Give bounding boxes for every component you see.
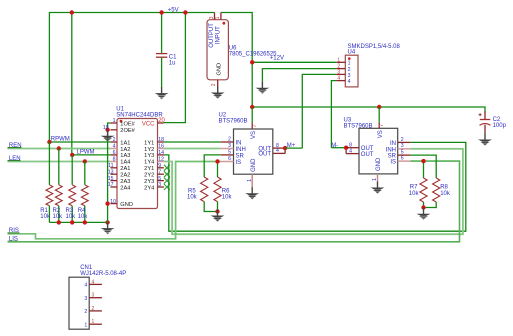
svg-text:1: 1 bbox=[247, 179, 253, 182]
wire VCC pin20 to +5V rail bbox=[164, 13, 186, 123]
ground for U3 bbox=[371, 182, 385, 194]
resistor R3 bbox=[69, 155, 76, 223]
svg-text:7: 7 bbox=[252, 124, 258, 127]
svg-text:20: 20 bbox=[158, 118, 165, 124]
svg-text:7: 7 bbox=[158, 169, 161, 175]
wire M- from U4 pin4 drop to U3 OUT bbox=[331, 147, 346, 149]
svg-text:INH: INH bbox=[236, 147, 246, 153]
resistor R7 bbox=[420, 161, 427, 207]
junction R6 top on IS net bbox=[215, 159, 219, 163]
svg-text:SMKDSP1,5/4-5.08: SMKDSP1,5/4-5.08 bbox=[348, 44, 401, 50]
svg-text:2Y2: 2Y2 bbox=[144, 173, 154, 179]
svg-text:3: 3 bbox=[348, 73, 351, 79]
svg-text:1: 1 bbox=[113, 118, 116, 124]
driver U2 BTS7960B bbox=[221, 107, 285, 188]
svg-text:1: 1 bbox=[84, 322, 87, 328]
svg-text:2A1: 2A1 bbox=[120, 166, 130, 172]
wire U2 OUT pins joined bbox=[284, 148, 286, 153]
svg-text:10k: 10k bbox=[409, 191, 420, 197]
svg-text:10k: 10k bbox=[66, 214, 77, 220]
connector CN1 WJ142R-5.08-4P bbox=[69, 277, 102, 329]
svg-text:+12V: +12V bbox=[270, 56, 284, 62]
capacitor C1 bbox=[156, 54, 167, 88]
svg-text:VS: VS bbox=[251, 131, 257, 139]
svg-text:2A3: 2A3 bbox=[120, 179, 130, 185]
wire VS rail +12V to C2 bbox=[252, 107, 485, 113]
svg-text:VS: VS bbox=[378, 130, 384, 138]
svg-text:GND: GND bbox=[120, 202, 133, 208]
svg-text:SR: SR bbox=[236, 153, 245, 159]
junction R5/R6 bottoms bbox=[215, 209, 219, 213]
wire M+ node to U4 pin3 drop bbox=[285, 147, 302, 149]
svg-text:IN: IN bbox=[390, 141, 396, 147]
svg-text:3: 3 bbox=[228, 143, 231, 149]
no-connect X pin5 bbox=[164, 178, 170, 184]
wire LPWM to U1 pin6 bbox=[72, 154, 110, 156]
svg-text:R8: R8 bbox=[440, 185, 448, 191]
wire 1Y4 down-around to U3 INH bbox=[164, 149, 463, 234]
resistor R6 bbox=[214, 162, 221, 212]
resistor R8 bbox=[424, 178, 440, 208]
svg-text:4: 4 bbox=[92, 279, 95, 285]
svg-text:4: 4 bbox=[113, 144, 116, 150]
wire U4 pin3 to M+ bbox=[302, 74, 336, 148]
svg-text:2: 2 bbox=[228, 137, 231, 143]
wire U3 OUT pins joined bbox=[345, 148, 347, 154]
no-connect X pin7 bbox=[164, 171, 170, 177]
junction R4 bottom bbox=[83, 220, 87, 224]
svg-text:OUT: OUT bbox=[361, 152, 374, 158]
svg-text:2Y3: 2Y3 bbox=[144, 179, 154, 185]
wire U6 INPUT to +12V vertical down to VS rail bbox=[221, 13, 252, 108]
svg-text:1A2: 1A2 bbox=[120, 147, 130, 153]
svg-text:14: 14 bbox=[158, 150, 164, 156]
svg-text:SN74HC244DBR: SN74HC244DBR bbox=[116, 113, 163, 119]
wire LEN to U1 pin8 bbox=[8, 161, 111, 163]
svg-text:GND: GND bbox=[217, 63, 223, 76]
svg-text:LPWM: LPWM bbox=[77, 150, 95, 156]
svg-text:3: 3 bbox=[401, 143, 404, 149]
svg-text:2: 2 bbox=[211, 83, 217, 86]
junction R7 top on LIS net bbox=[421, 159, 425, 163]
wire +5V rail with left drop to R1/RPWM bbox=[49, 13, 214, 143]
svg-text:1: 1 bbox=[372, 178, 378, 181]
wire C1 top lead from rail bbox=[161, 13, 163, 53]
junction LEN/R4 bbox=[83, 159, 87, 163]
junction R3 bottom bbox=[70, 220, 74, 224]
svg-text:1: 1 bbox=[92, 319, 95, 325]
svg-text:3: 3 bbox=[84, 296, 87, 302]
no-connect X pin9 bbox=[164, 165, 170, 171]
svg-text:5: 5 bbox=[401, 150, 404, 156]
svg-text:10k: 10k bbox=[440, 191, 451, 197]
svg-text:1Y1: 1Y1 bbox=[144, 140, 154, 146]
svg-text:3: 3 bbox=[158, 182, 161, 188]
wire U1 pin1/pin19 OE to GND vertical bbox=[108, 123, 111, 222]
resistor R2 bbox=[55, 149, 62, 223]
svg-text:1Y3: 1Y3 bbox=[144, 153, 154, 159]
ground for U2 bbox=[245, 187, 259, 199]
svg-text:IS: IS bbox=[390, 160, 396, 166]
svg-text:M+: M+ bbox=[287, 143, 296, 149]
svg-text:1: 1 bbox=[337, 57, 340, 63]
svg-text:17: 17 bbox=[108, 182, 114, 188]
svg-text:2Y4: 2Y4 bbox=[144, 185, 154, 191]
svg-text:15: 15 bbox=[108, 176, 114, 182]
svg-text:10k: 10k bbox=[40, 214, 51, 220]
svg-text:1Y2: 1Y2 bbox=[144, 147, 154, 153]
svg-text:2: 2 bbox=[92, 306, 95, 312]
junction VS U2 bbox=[250, 105, 254, 109]
svg-text:16: 16 bbox=[158, 144, 164, 150]
svg-text:INH: INH bbox=[386, 147, 396, 153]
svg-text:1A4: 1A4 bbox=[120, 160, 130, 166]
svg-text:1OE#: 1OE# bbox=[120, 122, 135, 128]
resistor R4 bbox=[81, 162, 88, 223]
svg-text:3: 3 bbox=[92, 293, 95, 299]
junction U1 ground net bottom bbox=[105, 220, 109, 224]
junction dots on +5V rail bbox=[70, 10, 74, 14]
svg-text:10k: 10k bbox=[187, 195, 198, 201]
svg-text:6: 6 bbox=[113, 150, 116, 156]
op-amp U6 regulator 7805 bbox=[207, 13, 228, 87]
svg-text:IN: IN bbox=[236, 141, 242, 147]
wire R5 to U2 SR bbox=[204, 155, 221, 177]
driver U3 BTS7960B bbox=[346, 107, 410, 182]
svg-text:19: 19 bbox=[103, 125, 109, 131]
wire RPWM to U1 pin2 bbox=[49, 141, 110, 143]
svg-text:OUT: OUT bbox=[258, 152, 271, 158]
svg-text:7: 7 bbox=[379, 124, 385, 127]
wire resistor bottoms to ground bbox=[49, 221, 107, 223]
capacitor C2 bbox=[479, 112, 491, 135]
wire 1Y3 down-around to U3 IN bbox=[164, 142, 466, 231]
wire REN to U1 pin4 bbox=[8, 148, 111, 150]
svg-text:4: 4 bbox=[84, 283, 87, 289]
ground for U6 bbox=[211, 87, 225, 99]
svg-text:R7: R7 bbox=[410, 185, 418, 191]
svg-text:5: 5 bbox=[158, 176, 161, 182]
buffer U1 SN74HC244DBR bbox=[103, 118, 166, 208]
svg-text:4: 4 bbox=[276, 148, 279, 154]
svg-text:1A1: 1A1 bbox=[120, 140, 130, 146]
svg-text:8: 8 bbox=[113, 157, 116, 163]
ground for C1 bbox=[155, 87, 169, 99]
connector U4 SMKDSP1,5/4-5.08 bbox=[336, 55, 358, 87]
junction U3 OUT bbox=[344, 146, 348, 150]
svg-text:2A4: 2A4 bbox=[120, 185, 130, 191]
svg-text:2: 2 bbox=[84, 309, 87, 315]
svg-text:11: 11 bbox=[108, 163, 113, 169]
svg-text:1u: 1u bbox=[169, 61, 176, 67]
svg-text:U4: U4 bbox=[348, 49, 356, 55]
svg-text:10k: 10k bbox=[78, 214, 89, 220]
svg-text:1: 1 bbox=[215, 16, 221, 19]
junction LPWM/R3 bbox=[70, 153, 74, 157]
svg-text:INPUT: INPUT bbox=[216, 26, 222, 44]
junction pin19 bbox=[105, 128, 109, 132]
svg-text:100p: 100p bbox=[493, 123, 507, 129]
svg-text:GND: GND bbox=[251, 158, 257, 172]
svg-text:BTS7960B: BTS7960B bbox=[344, 123, 373, 129]
svg-text:18: 18 bbox=[158, 137, 164, 143]
resistor R1 bbox=[46, 142, 53, 222]
wire +12V to U4 pin1 bbox=[252, 61, 336, 63]
svg-text:+5V: +5V bbox=[168, 7, 179, 13]
wire 1Y2 to U2 INH bbox=[164, 148, 221, 150]
junction R2 bottom bbox=[57, 220, 61, 224]
junction pin10 GND bbox=[105, 201, 109, 205]
svg-text:10k: 10k bbox=[53, 214, 64, 220]
svg-text:10: 10 bbox=[110, 199, 116, 205]
no-connect X pin3 bbox=[164, 184, 170, 190]
svg-text:RPWM: RPWM bbox=[51, 137, 70, 143]
wire LIS to U3 IS bbox=[8, 161, 460, 242]
junction U2 OUT bbox=[283, 146, 287, 150]
junction +12V bbox=[250, 60, 254, 64]
svg-text:6: 6 bbox=[228, 156, 231, 162]
svg-text:2: 2 bbox=[113, 137, 116, 143]
svg-text:BTS7960B: BTS7960B bbox=[219, 118, 248, 124]
svg-text:6: 6 bbox=[401, 156, 404, 162]
svg-text:5: 5 bbox=[228, 149, 231, 155]
ground for U4 pin2 bbox=[255, 82, 269, 94]
ground for R5/R6 bbox=[211, 210, 225, 222]
wire U4 pin2 to ground bbox=[262, 69, 336, 83]
svg-text:13: 13 bbox=[108, 169, 114, 175]
svg-text:GND: GND bbox=[376, 157, 382, 171]
svg-text:1A3: 1A3 bbox=[120, 153, 130, 159]
svg-text:M-: M- bbox=[331, 143, 338, 149]
wire U3 SR to R8 bbox=[410, 155, 436, 178]
wire from rail junction down to LPWM/R3 bbox=[71, 13, 73, 155]
svg-text:WJ142R-5.08-4P: WJ142R-5.08-4P bbox=[80, 271, 126, 277]
junction R7/R8 bottoms bbox=[421, 205, 425, 209]
ground for C2 bbox=[478, 134, 492, 146]
svg-text:OUTPUT: OUTPUT bbox=[209, 23, 215, 48]
svg-text:2: 2 bbox=[401, 137, 404, 143]
junction RPWM/R1 bbox=[47, 140, 51, 144]
svg-text:VCC: VCC bbox=[142, 122, 155, 128]
ground flag on OE net bbox=[101, 130, 115, 142]
svg-text:4: 4 bbox=[337, 76, 340, 82]
wire U4 pin4 to M- bbox=[331, 81, 336, 148]
resistor R5 bbox=[201, 177, 218, 212]
junction REN/R2 bbox=[57, 146, 61, 150]
svg-text:2Y1: 2Y1 bbox=[144, 166, 154, 172]
svg-text:4: 4 bbox=[348, 79, 351, 85]
svg-text:2OE#: 2OE# bbox=[120, 128, 135, 134]
ground for R7/R8 bbox=[417, 208, 431, 220]
svg-text:12: 12 bbox=[158, 157, 164, 163]
junction VS U3 bbox=[377, 105, 381, 109]
svg-text:10k: 10k bbox=[222, 195, 233, 201]
svg-text:4: 4 bbox=[349, 148, 352, 154]
wire RIS to U2 IS bbox=[8, 162, 221, 239]
svg-text:IS: IS bbox=[236, 160, 242, 166]
svg-text:3: 3 bbox=[337, 70, 340, 76]
svg-text:2A2: 2A2 bbox=[120, 173, 130, 179]
svg-text:1: 1 bbox=[348, 61, 351, 67]
svg-text:1Y4: 1Y4 bbox=[144, 160, 154, 166]
svg-text:9: 9 bbox=[158, 163, 161, 169]
svg-text:3: 3 bbox=[209, 16, 215, 19]
wire 1Y1 to U2 IN bbox=[164, 141, 221, 143]
ground for R1-R4 and U1 bbox=[101, 222, 115, 234]
